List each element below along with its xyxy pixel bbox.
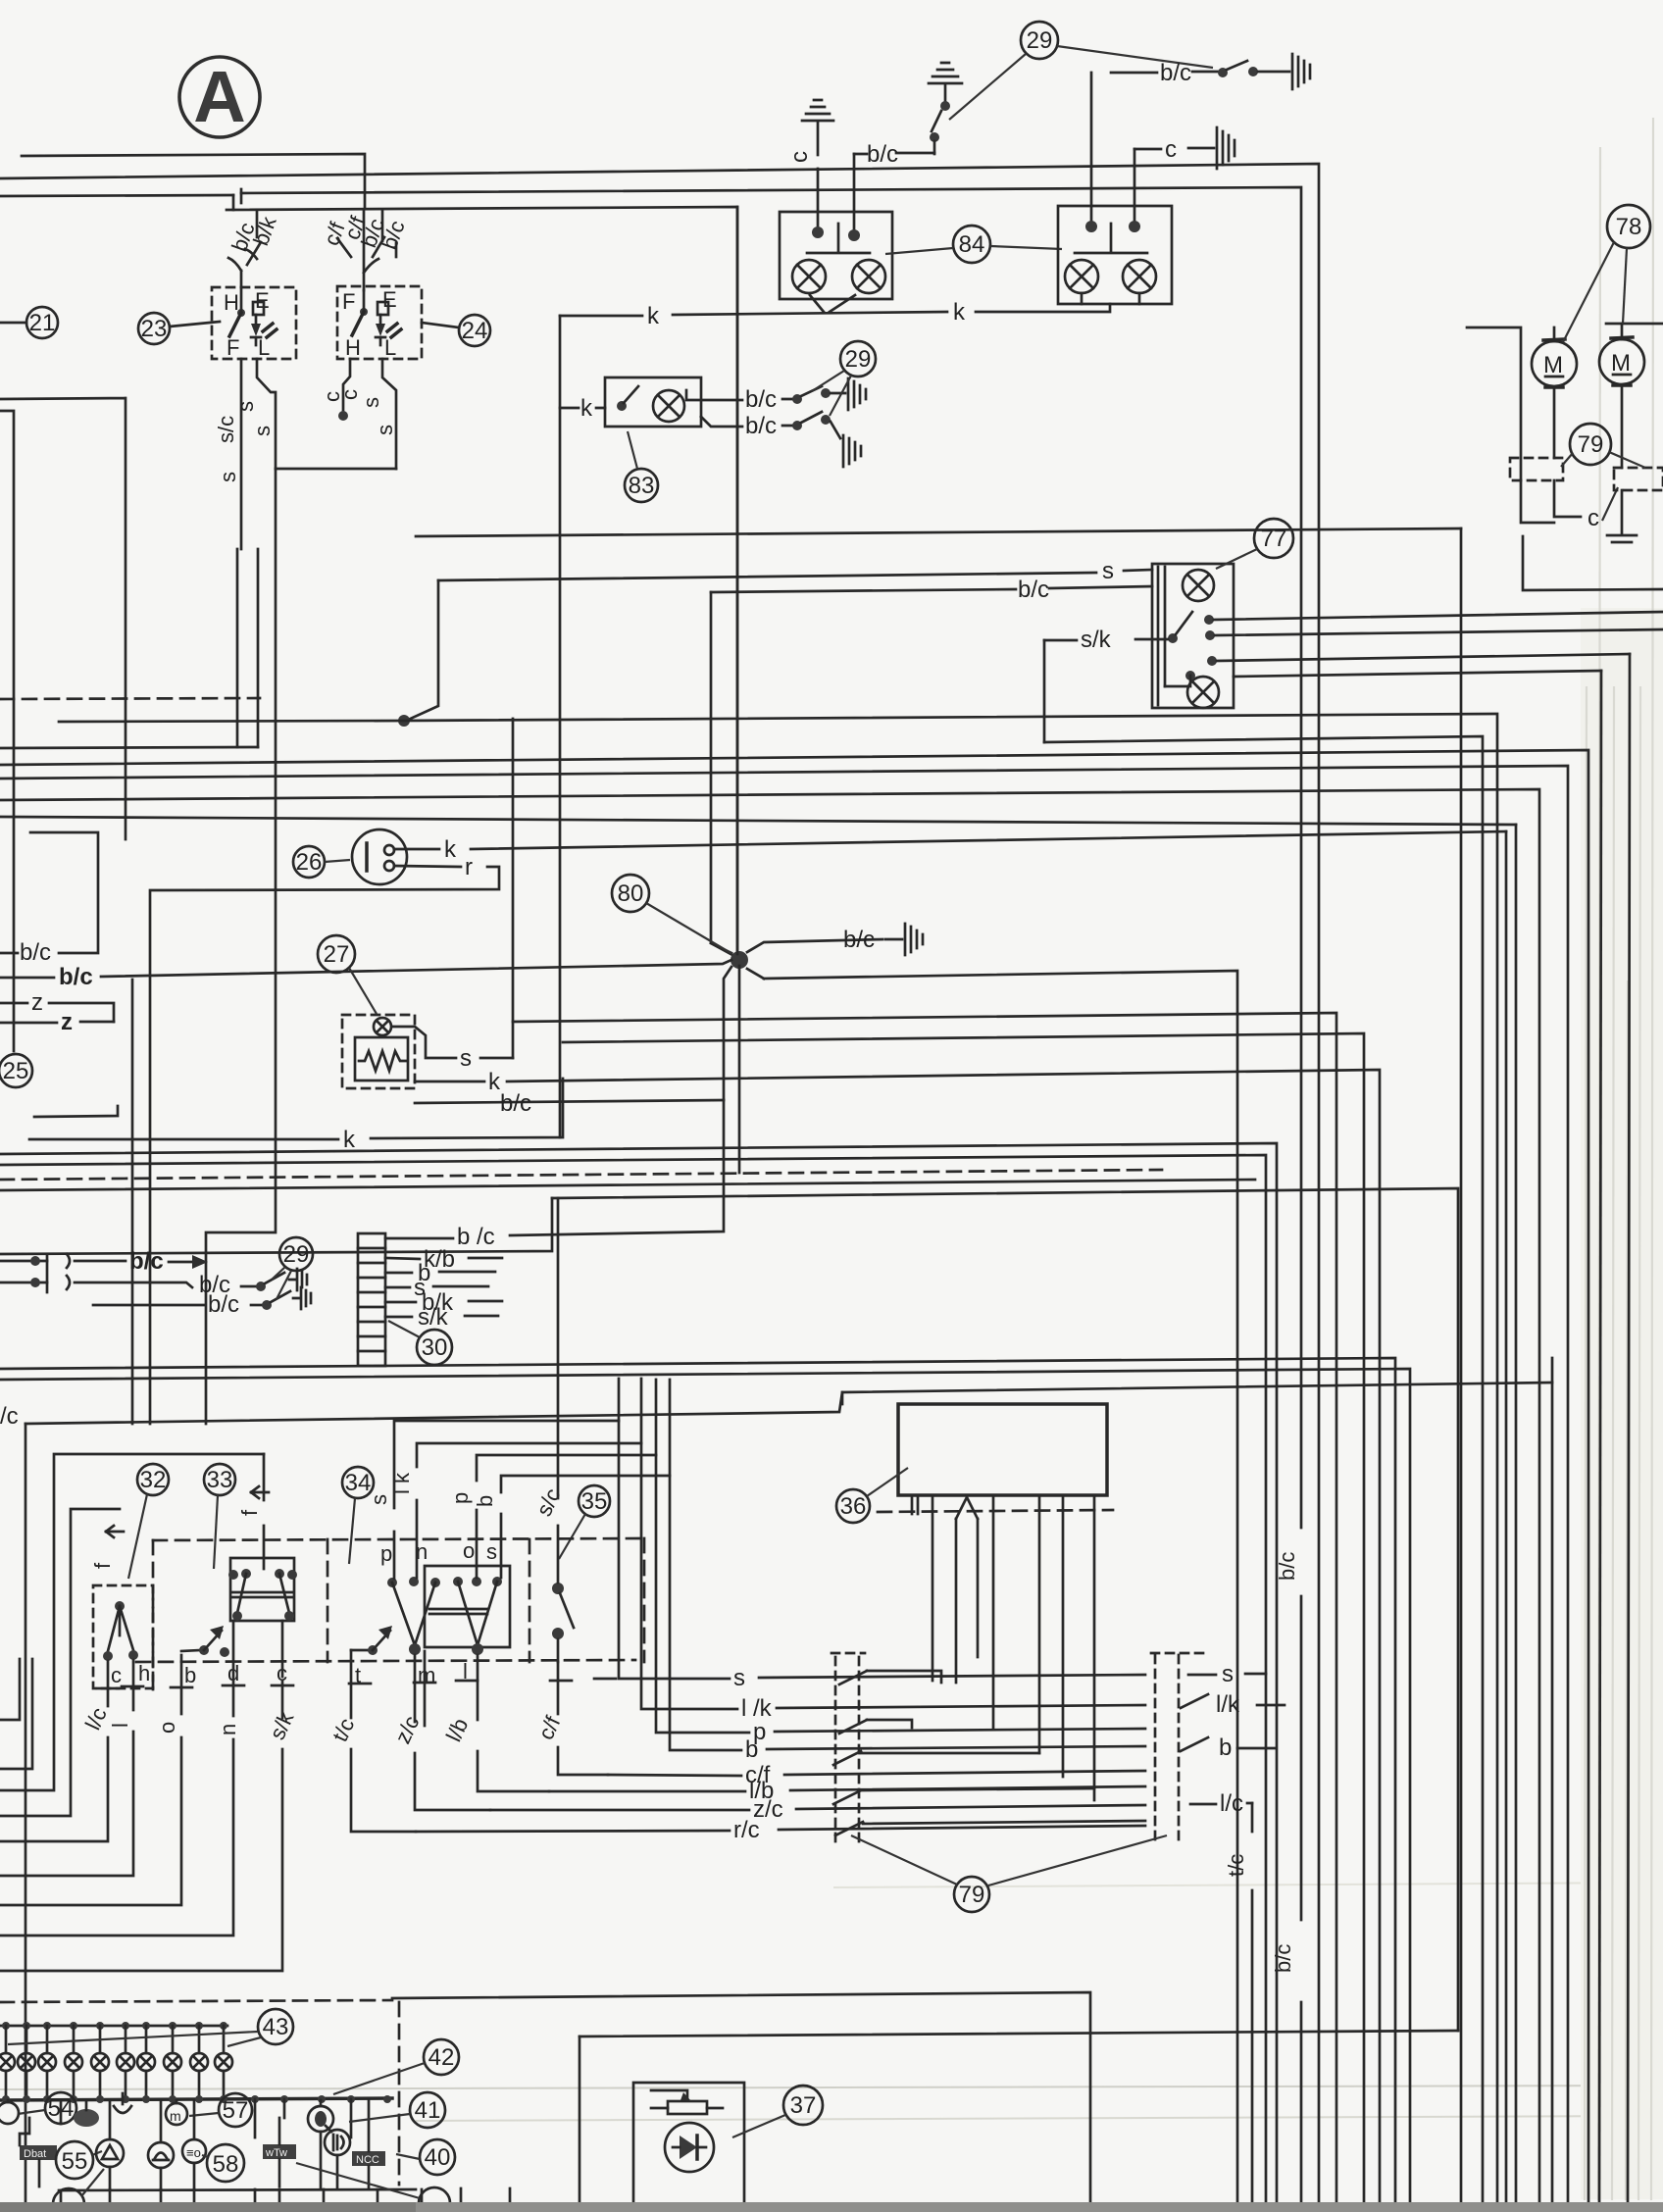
wire b/c from 83 lower [701,412,840,439]
wire s/c vertical [557,1198,560,1583]
band bottom wire 1 [0,1358,1395,2212]
box 36 feed from band [841,1392,844,1404]
wire s/k from 30 [385,1304,498,1331]
right outer box vertical [1460,528,1463,2212]
rectifier box 37 [633,2083,744,2209]
svg-text:s: s [733,1665,745,1691]
headlamp box 84 left [780,212,892,299]
switch 34 arrow lever [351,1626,392,1655]
node 79 callout bottom [851,1835,1167,1912]
wire bus top line 1 [22,154,365,209]
staircase upper left 2 [0,1659,32,1769]
wire s/c below 23 [214,359,241,549]
lamp 84a-2 [852,260,885,293]
wire s to 77 [438,558,1152,584]
svg-text:wTw: wTw [265,2147,287,2159]
pilot lamp box 83 [605,377,701,427]
resistor 27 [359,1051,406,1071]
wire row b [670,1476,1275,1763]
svg-text:c: c [111,1663,122,1687]
staircase wire l/c [0,1661,108,1841]
svg-text:37: 37 [790,2092,817,2119]
arrow symbol assembly mid [251,1486,269,1498]
svg-text:l /k: l /k [741,1695,773,1722]
regulator outer vertical [579,2036,581,2212]
svg-text:34: 34 [345,1470,372,1496]
switch unit 26 [293,829,407,884]
motor bracket right [1606,323,1663,326]
svg-text:57: 57 [223,2097,249,2124]
svg-text:77: 77 [1261,526,1287,552]
wire s below 23 with lever [233,359,276,469]
warning lamp 3 [38,2026,56,2100]
wire s from 27 [392,719,513,1072]
connector strip 30 [358,1233,385,1366]
node 37 callout [732,2086,823,2137]
headlamp box 84 right [1058,206,1172,304]
diode 37 [665,2123,714,2172]
svg-text:l/c: l/c [1220,1790,1243,1817]
band2 wire 2 [0,1155,1266,2212]
wire bus top line 2 [0,164,1319,2212]
staircase upper left 1 [0,1659,20,1720]
switch b/c top right [1111,60,1289,86]
right bundle vertical b [1599,671,1601,2212]
svg-text:b/c: b/c [1271,1944,1295,1973]
band2 wire 4 [0,1180,1255,1190]
wire row l/k [641,1443,1285,1722]
wire row z/c [490,1796,1145,1823]
ground above c lamp 84a [786,100,833,238]
svg-text:b/c: b/c [208,1291,239,1318]
levers left column [833,1671,867,1835]
svg-text:b/c: b/c [500,1090,531,1117]
svg-text:c: c [1165,136,1177,163]
node 43 callout [8,2009,293,2046]
warning lamp 5 [91,2026,109,2100]
svg-text:h: h [138,1661,150,1685]
band2 wire 3 dashed [0,1170,1162,1180]
svg-text:s: s [1222,1661,1234,1687]
svg-text:79: 79 [959,1882,985,1908]
node 34 callout [342,1467,374,1564]
svg-text:r/c: r/c [733,1817,760,1843]
scan crease lines [0,2086,1663,2089]
contact levers above 23 [228,210,261,287]
left column step wires [861,1671,1145,1824]
vertical from junction dot [406,580,438,721]
svg-text:Dbat: Dbat [24,2148,46,2160]
wire b/k from 30 [385,1289,502,1316]
motor M2 [1599,324,1644,468]
connector 79 left dashed [1510,458,1563,480]
ground top middle [929,63,962,102]
ground b/c lower [843,435,861,467]
icon WTW box [263,2118,296,2187]
switch 29 top middle [930,101,950,154]
svg-text:f: f [90,1562,115,1569]
switch 34 box [425,1566,510,1647]
band lower wire 1 [764,971,1237,2212]
tail lamp unit 77 box [1152,564,1234,708]
svg-text:42: 42 [428,2044,455,2071]
node 80 callout [612,875,732,954]
dashed box right edge bottom-left [398,2002,401,2185]
staircase wire o [0,1655,181,1905]
motor c bracket [1523,536,1663,590]
node 24 callout [422,315,490,346]
wire row c/f [608,1762,1145,1788]
svg-text:m: m [170,2108,181,2124]
svg-text:35: 35 [581,1488,608,1515]
dashed bus below 36 [878,1510,1113,1512]
icon horn circle [308,2100,333,2132]
section top line [25,1382,1552,1424]
switch lever 24 [352,290,368,335]
wire b/c into star [0,960,731,990]
wire k long row2 [29,1079,563,1153]
svg-text:k: k [647,303,660,329]
dashed box top bottom-left [0,2000,392,2002]
svg-text:p: p [448,1492,473,1504]
pin ticks row [97,1679,616,1688]
pin wire 36 e [1093,1495,1096,1800]
nested wire to col s [394,1379,619,1579]
svg-text:33: 33 [207,1467,233,1493]
svg-text:b/c: b/c [843,927,875,953]
svg-text:z: z [31,989,43,1016]
band lower wire 2 [513,1013,1336,2212]
node 84 callout [885,226,1062,263]
nested wire to col lk [417,1379,641,1578]
ground top right [1292,54,1310,89]
pin arrow 36 [956,1497,978,1683]
contact levers above 24 [337,210,396,290]
svg-text:≡o: ≡o [186,2145,201,2160]
svg-text:M: M [1611,350,1631,377]
svg-text:F: F [227,335,239,360]
wire f col 33 [263,1454,266,1569]
star junction 80 [711,207,882,1173]
svg-text:23: 23 [141,316,168,342]
band wire a [59,714,1497,2212]
wire k from 27 [415,1069,1380,2212]
left vertical lower [131,980,134,1424]
nested wire to col p [477,1380,656,1578]
svg-text:80: 80 [618,880,644,907]
svg-text:n: n [216,1724,240,1735]
svg-text:41: 41 [415,2097,441,2124]
svg-text:z: z [61,1009,73,1035]
node 40 callout [396,2139,455,2175]
wire feed to switches 23/24 [227,207,737,954]
connector 79 box tops [831,1652,1206,1655]
icon bulb left edge [0,2100,19,2124]
wire s/k lower run [1044,736,1483,2212]
switch 33 arrow lever [181,1626,229,1657]
wire b/c row3 to ground switch [93,1287,311,1318]
bottom scan band [0,2202,1663,2212]
main bottom bus [0,2098,392,2100]
switch 32 contacts [103,1601,138,1661]
svg-text:79: 79 [1578,431,1604,458]
svg-text:36: 36 [840,1493,867,1520]
svg-text:b: b [473,1495,497,1507]
connector 79 right dashed [1614,468,1663,490]
right bundle vertical a [1628,654,1630,2212]
wire b/c with arrow [75,1248,208,1275]
resistor 37 [651,2090,723,2114]
wire b from 30 [385,1260,495,1286]
pin tick 36 [912,1495,918,1514]
node 35 callout [559,1485,610,1559]
band wire b [0,750,1588,2212]
svg-text:s: s [233,401,258,412]
junction dot 80 path [398,715,410,727]
wire z lower [0,1009,114,1035]
node 36 callout [836,1468,908,1523]
wires from 77 contacts right [1214,612,1663,677]
node 23 callout [138,313,220,344]
wire row r/c [416,1817,1145,1843]
pin wire 36 a [932,1495,934,1681]
node 27 callout [318,935,377,1014]
wire k vertical to 83 [559,316,562,1137]
wire row l/c right [1190,1790,1252,2212]
svg-text:c: c [1587,505,1599,531]
wire row p [656,1455,1145,1745]
svg-text:b: b [184,1663,196,1687]
arrow symbol assembly left [106,1526,124,1537]
wire k into 83 [560,395,605,422]
wire b/c row2 to ground switch [75,1269,307,1298]
motor bracket left [1467,327,1554,523]
band wire y762 [0,747,258,748]
wire b/c upper left [0,832,98,966]
lamp 84b-1 [1065,260,1098,293]
node 41 callout [349,2092,445,2128]
svg-text:s: s [367,1494,391,1505]
band bottom wire 2 [0,1369,1410,2212]
node 29 callout top [949,22,1213,120]
fuse square 23 [253,302,264,315]
bus junction dots [2,2095,391,2103]
svg-text:E: E [255,288,270,313]
nested wire to col b [501,1380,670,1578]
band wire d [0,789,1539,2212]
svg-text:b/c: b/c [129,1248,164,1275]
pin wire 36 c [1038,1495,1041,1753]
svg-text:78: 78 [1616,214,1642,240]
wire row l/b [549,1778,1145,1804]
svg-text:A: A [193,56,245,137]
wire row s [619,1421,1266,1691]
pin wire 36 b [992,1495,995,1728]
wire c below M1 [1554,480,1618,531]
node 39 callout partial [296,2163,450,2212]
node 33 callout [204,1464,235,1569]
svg-text:b /c: b /c [457,1224,495,1250]
lamp row dots [2,2022,227,2030]
node 29 callout mid [812,341,876,416]
wire m down [424,1651,427,1726]
icon cup [114,2093,131,2113]
lamp 84a-1 [792,260,826,293]
wire b/c to 77 [711,577,1152,603]
dimmer relay 24 box [337,286,422,360]
node 77 callout [1216,519,1293,569]
icon battery box [20,2118,57,2187]
svg-text:o: o [463,1538,475,1563]
svg-text:29: 29 [283,1241,310,1268]
svg-text:s: s [250,426,275,436]
wire c/f down right [558,1662,608,1775]
dashed box verticals [153,1538,644,1689]
svg-text:H: H [345,335,361,360]
labels s lk p b cols [367,1472,497,1507]
svg-text:s/k: s/k [418,1304,449,1331]
right edge streak zone [1581,608,1663,2199]
svg-text:s/k: s/k [1081,627,1112,653]
node 56 callout partial [53,2169,104,2212]
wire s/k to 77 [1044,627,1168,742]
streak lines [1585,118,1653,2200]
svg-text:/c: /c [0,1403,19,1430]
connector 79 right column dashed [1155,1655,1179,1843]
ground b/c upper [848,378,866,410]
svg-text:L: L [258,335,270,360]
icon foglight circle [325,2126,350,2155]
wire f inner [0,1509,120,1816]
svg-text:27: 27 [324,941,350,968]
dashed box bottom assembly [136,1660,635,1662]
wire z upper [0,989,114,1022]
svg-text:24: 24 [462,318,488,344]
node 21 callout [0,307,58,338]
warning lamp 2 [18,2026,35,2100]
left box 25 inner [0,411,14,1051]
wire k/b from 30 [385,1246,502,1273]
node 57 callout [189,2093,252,2127]
box 25 bottom corner [34,1106,118,1117]
below verticals [61,2188,510,2212]
svg-text:k: k [444,836,457,863]
dash-dot wire left [0,698,260,699]
connector 79 left column dashed [835,1657,859,1843]
icon blob [74,2109,99,2127]
left box 25 outer [0,398,126,839]
switch lever 23 [229,287,245,336]
node 54 callout [18,2092,76,2124]
wire s long drop [206,469,276,1424]
svg-text:t/c: t/c [1224,1854,1248,1877]
warning lamp 7 [137,2026,155,2100]
svg-text:s: s [359,397,383,408]
svg-text:b: b [745,1736,758,1763]
lamp feed line [0,2025,227,2028]
node 55 callout [56,2141,102,2179]
svg-text:k: k [580,395,593,422]
svg-text:29: 29 [845,346,872,373]
svg-text:s: s [373,425,397,435]
switch 34 contacts [387,1577,502,1655]
wire s below 24 with lever [359,359,397,469]
svg-text:40: 40 [425,2144,451,2171]
svg-text:s: s [216,472,240,482]
dashed box top assembly [153,1538,644,1540]
ground b/c at star [843,924,923,955]
node 58 callout [202,2144,244,2182]
wire c col33 down [281,1621,284,1677]
section left vertical [25,1424,27,2212]
svg-text:l: l [108,1723,132,1728]
dimmer relay 23 box [212,287,296,360]
icon m circle [166,2100,187,2125]
svg-text:b/c: b/c [1160,60,1191,86]
wire r from 26 [150,854,499,1424]
node 29 callout left [272,1237,313,1299]
svg-text:NCC: NCC [356,2154,379,2166]
wire c below 24 [320,359,362,421]
svg-text:b: b [1219,1734,1232,1761]
svg-text:55: 55 [62,2148,88,2175]
node 79 callout right [1561,424,1645,468]
label b/c feed 23-24 [848,141,934,241]
box bottom line around 83 [416,528,1461,536]
pin wire 36 d [1062,1495,1065,1777]
wire c to ground right [1134,136,1214,223]
flasher unit 27 dashed box [342,1015,415,1088]
wires icons to bus [61,2099,351,2188]
svg-text:21: 21 [29,310,56,336]
lamp 83 [653,390,684,422]
node 32 callout [128,1464,169,1579]
svg-text:s: s [486,1539,497,1564]
node 42 callout [333,2039,459,2094]
band2 wire 5 left drop [0,1198,552,1254]
svg-text:H: H [224,290,239,315]
wire b/c from 27 [415,1090,724,1117]
wire l/b down right [478,1655,549,1791]
svg-text:b/c: b/c [745,413,777,439]
svg-text:b/c: b/c [1018,577,1049,603]
icon triangle circle [96,2100,124,2188]
staircase wire n [0,1621,233,1935]
wire b/c from strip 30 [385,1100,724,1250]
node 30 callout [388,1321,452,1365]
svg-text:b/c: b/c [1275,1552,1299,1581]
warning lamp 10 [215,2026,232,2100]
staircase wire s/k [0,1681,282,1971]
wire top line 3 continued [241,187,1301,2212]
svg-text:84: 84 [959,231,985,258]
wire jog tick [233,189,241,210]
band bottom drop [1551,1358,1554,2212]
svg-text:58: 58 [213,2151,239,2178]
wire b/c drop to lamp 84b [1090,73,1093,223]
svg-text:L: L [384,335,396,360]
warning lamp 8 [164,2026,181,2100]
svg-text:s: s [1102,558,1114,584]
svg-text:o: o [155,1722,179,1734]
svg-text:26: 26 [296,849,323,876]
svg-text:29: 29 [1027,27,1053,54]
band wire c [0,766,1568,2212]
wire s from 30 [385,1275,488,1301]
warning lamp 6 [117,2026,134,2100]
switch 35 lever [552,1583,574,1662]
mid vertical 2 [257,549,260,747]
